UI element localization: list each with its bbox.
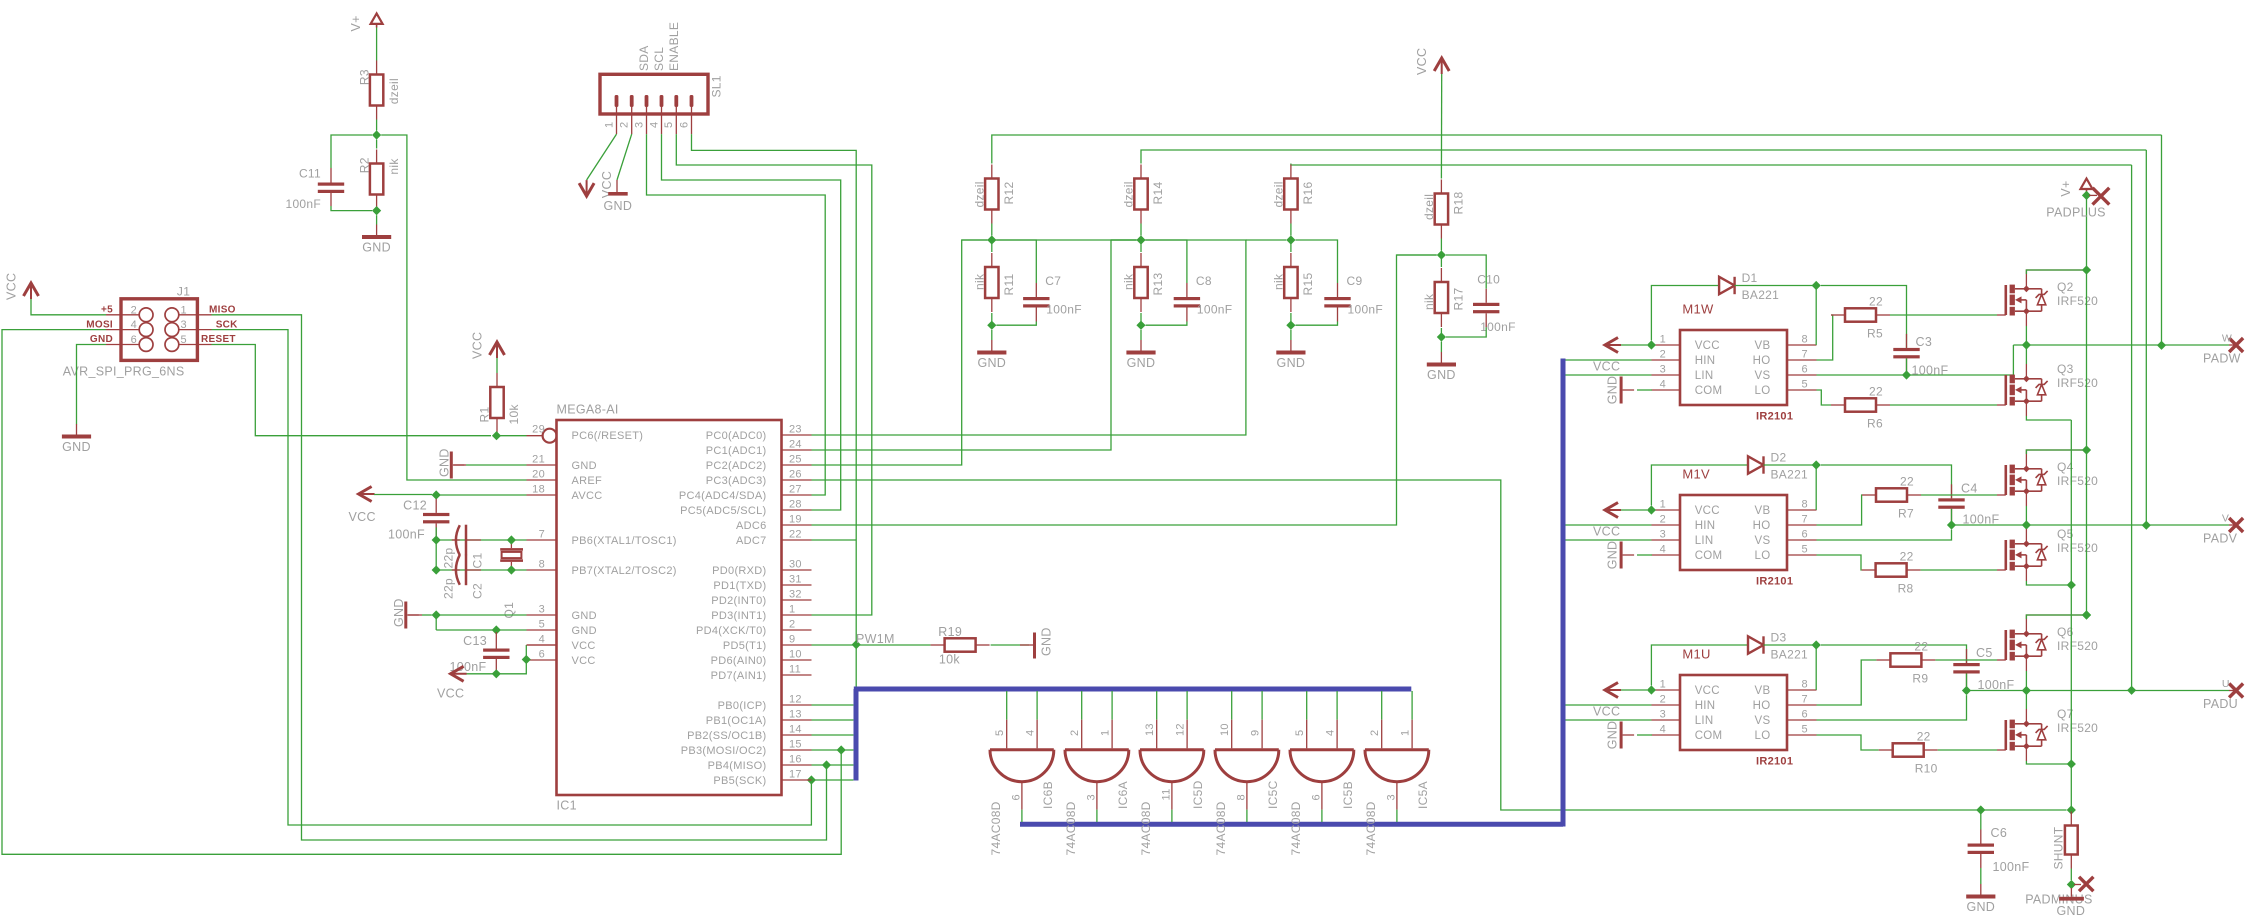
junction R11 bottom: [987, 321, 996, 330]
AND gate IC5D body: [1140, 750, 1204, 782]
svg-text:HIN: HIN: [1695, 700, 1716, 712]
junction sense W: [2157, 341, 2166, 350]
svg-text:4: 4: [539, 634, 545, 646]
svg-text:22: 22: [1914, 640, 1928, 654]
transistor Q6 IRF520: [1997, 630, 2048, 661]
junction divider R18 mid: [1437, 250, 1446, 259]
pad PADPLUS: [2093, 188, 2110, 205]
pin Q3 drain: [2025, 364, 2027, 379]
svg-text:3: 3: [181, 319, 187, 331]
junction phase U: [2022, 686, 2031, 695]
J1 pin 2 pad: [139, 308, 153, 322]
svg-text:GND: GND: [90, 334, 113, 345]
svg-text:1: 1: [1660, 499, 1666, 511]
svg-text:100nF: 100nF: [1348, 303, 1384, 317]
wire LO to R8: [1817, 555, 1862, 570]
svg-text:5: 5: [1802, 544, 1808, 556]
pad stub PADW: [2229, 344, 2236, 346]
junction R13 bottom: [1136, 321, 1145, 330]
wire C9 bottom: [1296, 322, 1338, 326]
svg-text:22: 22: [789, 529, 802, 541]
svg-text:dzeil: dzeil: [387, 78, 401, 104]
wire Q5 drain to phase: [2025, 525, 2027, 529]
junction C6 top: [1976, 805, 1985, 814]
svg-text:PB4(MISO): PB4(MISO): [708, 760, 767, 772]
ground at SL1 pin2: [604, 180, 633, 213]
ground at R19: [1020, 627, 1054, 658]
svg-text:2: 2: [1069, 730, 1081, 736]
wire R12 to node: [991, 224, 993, 236]
wire R16 top to sense line: [1291, 164, 2132, 166]
wire gate IC5A input 2: [1381, 691, 1383, 720]
pin Q7 drain: [2025, 709, 2027, 724]
wire node left branch: [1246, 239, 1286, 241]
svg-text:IC1: IC1: [557, 799, 577, 813]
wire VCC arrow to M1W pin1: [1621, 344, 1647, 346]
svg-text:C2: C2: [470, 583, 484, 599]
svg-text:22p: 22p: [442, 578, 456, 599]
svg-text:C1: C1: [470, 553, 484, 569]
svg-text:V+: V+: [349, 15, 363, 31]
resistor R13: [1122, 253, 1166, 312]
pin 3 GND stub: [527, 614, 557, 616]
svg-text:M1V: M1V: [1682, 467, 1710, 482]
pin 6 VS of M1V: [1787, 539, 1817, 541]
wire R13 to gnd node: [1140, 313, 1142, 325]
wire LO to R10: [1817, 735, 1879, 750]
junction crystal top: [507, 535, 516, 544]
svg-text:1: 1: [1660, 679, 1666, 691]
ground at M1V COM: [1605, 541, 1634, 570]
svg-text:VB: VB: [1755, 505, 1771, 517]
svg-text:11: 11: [1161, 788, 1173, 800]
svg-text:AREF: AREF: [572, 475, 603, 487]
svg-text:9: 9: [1249, 730, 1261, 736]
junction MOSI at PB3: [837, 745, 846, 754]
svg-text:C10: C10: [1477, 273, 1500, 287]
SL1 pin 6 lead: [691, 107, 693, 134]
AND gate IC5B body: [1290, 750, 1354, 782]
transistor Q2 IRF520: [1997, 285, 2048, 316]
pin 16 PB4(MISO) stub: [782, 764, 812, 766]
SL1 pin 2 lead: [631, 107, 633, 134]
transistor Q3 IRF520: [1997, 375, 2048, 406]
pin 5 LO of M1W: [1787, 389, 1817, 391]
svg-text:nik: nik: [1122, 273, 1136, 290]
svg-text:7: 7: [1802, 514, 1808, 526]
svg-text:IRF520: IRF520: [2057, 541, 2098, 555]
wire node to R11: [991, 240, 993, 252]
pin 6 VCC stub: [527, 659, 557, 661]
svg-text:R14: R14: [1151, 182, 1165, 205]
svg-text:Q1: Q1: [502, 602, 516, 619]
svg-text:dzeil: dzeil: [1272, 181, 1286, 207]
svg-text:10: 10: [789, 649, 802, 661]
pin 19 ADC6 stub: [782, 524, 812, 526]
wire VCC arrow to M1U pin1: [1621, 689, 1647, 691]
wire R10 to Q7 gate: [1938, 749, 1997, 751]
svg-text:RESET: RESET: [201, 334, 236, 345]
wire Q4 drain to V+ rail: [2026, 450, 2086, 469]
ground below R2: [362, 225, 391, 255]
wire gate IC5A output: [1396, 810, 1398, 822]
AND gate IC6A body: [1065, 750, 1129, 782]
transistor Q7 IRF520: [1997, 720, 2048, 751]
svg-text:1: 1: [603, 122, 615, 128]
wire RESET node to PC6: [497, 435, 527, 437]
wire C7 bottom: [996, 322, 1036, 326]
wire gate IC6A output: [1096, 810, 1098, 822]
svg-text:22: 22: [1917, 730, 1931, 744]
svg-text:R12: R12: [1002, 182, 1016, 205]
svg-text:V+: V+: [2059, 180, 2073, 196]
wire C8 bottom: [1146, 322, 1187, 326]
svg-text:GND: GND: [362, 241, 391, 255]
wire V+ rail: [2086, 195, 2088, 615]
svg-text:GND: GND: [438, 448, 452, 477]
ground at M1W COM: [1605, 376, 1634, 405]
SL1 pin 5 pad: [674, 95, 678, 107]
svg-text:R7: R7: [1898, 507, 1914, 521]
wire bus to HIN M1W: [1566, 359, 1652, 361]
wire VB node down: [1815, 465, 1817, 510]
ground below R17: [1427, 352, 1456, 382]
svg-text:PW1M: PW1M: [856, 632, 895, 646]
wire gate IC5B input 5: [1306, 691, 1308, 720]
svg-text:3: 3: [1660, 529, 1666, 541]
svg-text:12: 12: [789, 694, 802, 706]
IC M1U IR2101 box: [1680, 675, 1787, 750]
J1 pin 1 stub: [179, 314, 212, 316]
wire phase W line: [2013, 344, 2229, 346]
svg-text:18: 18: [532, 484, 545, 496]
pin 4 COM of M1V: [1652, 554, 1681, 556]
junction COM rail Q5: [2067, 580, 2076, 589]
wire net RESET: [212, 345, 492, 436]
svg-text:VS: VS: [1755, 370, 1771, 382]
svg-text:IR2101: IR2101: [1756, 576, 1793, 588]
wire VCC arrow to M1V pin1: [1621, 509, 1647, 511]
pin 8 VB of M1W: [1787, 344, 1817, 346]
power VCC at M1W: [1593, 338, 1621, 374]
svg-text:LIN: LIN: [1695, 715, 1714, 727]
svg-text:1: 1: [1399, 730, 1411, 736]
wire gnd to pin21: [466, 464, 527, 466]
svg-text:11: 11: [789, 664, 801, 676]
pin 2 HIN of M1U: [1652, 704, 1681, 706]
J1 pin 6 stub: [106, 344, 139, 346]
svg-text:4: 4: [1024, 730, 1036, 736]
power VCC at M1U: [1593, 683, 1621, 719]
svg-text:24: 24: [789, 439, 802, 451]
svg-text:Q3: Q3: [2057, 362, 2074, 376]
power VCC at M1V: [1593, 503, 1621, 539]
svg-text:VCC: VCC: [1695, 685, 1720, 697]
svg-text:GND: GND: [1605, 541, 1619, 570]
svg-text:PB2(SS/OC1B): PB2(SS/OC1B): [687, 730, 766, 742]
svg-text:100nF: 100nF: [1197, 303, 1233, 317]
resistor R14: [1122, 165, 1166, 224]
svg-text:R11: R11: [1002, 273, 1016, 295]
svg-text:10: 10: [1219, 723, 1231, 736]
wire bus to HIN M1U: [1566, 704, 1652, 706]
junction V+ rail Q4: [2082, 445, 2091, 454]
wire V+ to R3: [376, 28, 378, 61]
svg-text:5: 5: [539, 619, 545, 631]
svg-text:22: 22: [1869, 385, 1883, 399]
svg-text:8: 8: [539, 559, 545, 571]
svg-text:IR2101: IR2101: [1756, 756, 1793, 768]
junction SCK at PB5: [807, 775, 816, 784]
svg-text:BA221: BA221: [1771, 648, 1809, 662]
wire sense W vertical: [2161, 135, 2163, 345]
svg-text:3: 3: [1086, 794, 1098, 800]
svg-text:3: 3: [539, 604, 545, 616]
power VCC at C13: [437, 666, 467, 700]
ground at pin3: [392, 598, 419, 628]
junction VCC M1V: [1647, 505, 1656, 514]
bus horizontal top: [854, 687, 1412, 692]
svg-text:C5: C5: [1976, 646, 1993, 660]
wire XTAL node link: [435, 540, 437, 570]
svg-text:R15: R15: [1301, 273, 1315, 296]
ground below PADMINUS: [2057, 897, 2086, 918]
junction VB node M1V: [1812, 460, 1821, 469]
wire C10 bottom: [1446, 327, 1486, 337]
svg-text:dzeil: dzeil: [1422, 194, 1436, 220]
svg-text:7: 7: [539, 529, 545, 541]
svg-text:100nF: 100nF: [1993, 860, 2030, 874]
junction C4 phase: [1947, 520, 1956, 529]
svg-text:MISO: MISO: [209, 305, 236, 316]
svg-text:C8: C8: [1196, 274, 1212, 288]
svg-text:PC1(ADC1): PC1(ADC1): [706, 445, 767, 457]
ground below J1: [62, 424, 91, 454]
wire node to R13: [1140, 240, 1142, 252]
svg-text:PD7(AIN1): PD7(AIN1): [711, 670, 767, 682]
pin Q7 source: [2025, 746, 2027, 761]
resistor R19: [931, 638, 990, 651]
pin 30 PD0(RXD) stub: [782, 569, 812, 571]
svg-text:28: 28: [789, 499, 802, 511]
resistor R5 22: [1831, 295, 1890, 341]
resistor R6 22: [1831, 385, 1890, 431]
wire net SCK: [212, 330, 812, 825]
wire R9 to Q6 gate: [1935, 659, 1997, 661]
svg-text:VB: VB: [1755, 340, 1771, 352]
wire node to R17: [1440, 255, 1442, 267]
svg-text:3: 3: [633, 122, 645, 128]
pin stub pin4: [527, 644, 557, 646]
pin 1 of IC6A: [1111, 720, 1113, 749]
svg-text:6: 6: [1311, 794, 1323, 800]
power VCC at SL1: [579, 171, 614, 198]
wire net SCL: [662, 134, 841, 510]
pin 6 VS of M1U: [1787, 719, 1817, 721]
svg-text:4: 4: [1324, 730, 1336, 736]
pin 1 of IC5A: [1411, 720, 1413, 749]
junction PW1M: [852, 640, 861, 649]
J1 pin 1 pad: [165, 308, 179, 322]
wire R2 to GND: [376, 215, 378, 224]
pin 5 GND stub: [527, 629, 557, 631]
pin 14 PB2(SS/OC1B) stub: [782, 734, 812, 736]
wire COM rail: [2070, 420, 2072, 810]
wire PC1 to divider 2: [812, 240, 1137, 450]
wire VB node to C3: [1821, 286, 1907, 348]
svg-text:5: 5: [1802, 379, 1808, 391]
svg-text:5: 5: [1294, 730, 1306, 736]
transistor Q5 IRF520: [1997, 540, 2048, 571]
svg-text:16: 16: [789, 754, 802, 766]
pin Q3 source: [2025, 401, 2027, 416]
junction node NIK: [372, 206, 381, 215]
capacitor C12: [423, 499, 449, 538]
resistor R8 22: [1862, 550, 1921, 596]
capacitor C6: [1968, 830, 1994, 869]
wire D2 cathode to VB node: [1764, 464, 1817, 466]
wire VS jog: [1817, 695, 1967, 720]
svg-text:GND: GND: [1277, 356, 1306, 370]
svg-text:R8: R8: [1898, 582, 1914, 596]
svg-text:VCC: VCC: [1695, 505, 1720, 517]
resistor R15: [1272, 253, 1316, 312]
SL1 pin 4 pad: [660, 95, 664, 107]
svg-text:C9: C9: [1347, 274, 1363, 288]
pin 11 of IC5D: [1171, 782, 1173, 810]
svg-text:GND: GND: [1605, 376, 1619, 405]
junction crystal bottom: [507, 565, 516, 574]
svg-text:R2: R2: [357, 157, 371, 173]
wire node left branch: [962, 239, 988, 241]
wire node to R15: [1290, 240, 1292, 252]
resistor R18: [1422, 180, 1466, 239]
svg-text:R16: R16: [1301, 182, 1315, 205]
svg-text:ENABLE: ENABLE: [667, 22, 681, 71]
svg-text:LIN: LIN: [1695, 370, 1714, 382]
svg-text:100nF: 100nF: [388, 528, 425, 542]
pin 31 PD1(TXD) stub: [782, 584, 812, 586]
wire pin6 node to VCC: [466, 660, 526, 674]
pin 5 LO of M1U: [1787, 734, 1817, 736]
junction C13 bottom: [492, 669, 501, 678]
junction sense V: [2142, 521, 2151, 530]
wire gate IC6B input 4: [1036, 691, 1038, 720]
svg-text:100nF: 100nF: [1912, 364, 1949, 378]
wire R7 to Q4 gate: [1921, 494, 1997, 496]
pin 6 of IC5B: [1321, 782, 1323, 810]
wire SL1 pin2 to GND: [617, 134, 632, 180]
svg-text:6: 6: [131, 334, 137, 346]
junction V+ rail bottom: [2082, 610, 2091, 619]
wire VCC node to diode D1: [1651, 286, 1719, 341]
junction phase V: [2022, 520, 2031, 529]
svg-text:13: 13: [789, 709, 802, 721]
wire gate IC6B input 5: [1006, 691, 1008, 720]
wire gate IC6A input 2: [1081, 691, 1083, 720]
svg-text:5: 5: [181, 334, 187, 346]
svg-text:74AC08D: 74AC08D: [1064, 801, 1078, 855]
pad PADMINUS: [2079, 877, 2093, 891]
junction phase W: [2022, 340, 2031, 349]
svg-text:5: 5: [663, 122, 675, 128]
wire gnd bar to pin3 node: [422, 614, 432, 616]
pin 28 PC5(ADC5/SCL) stub: [782, 509, 812, 511]
svg-text:74AC08D: 74AC08D: [1214, 801, 1228, 855]
pin 32 PD2(INT0) stub: [782, 599, 812, 601]
svg-text:C6: C6: [1991, 826, 2008, 840]
junction node DZ: [372, 130, 381, 139]
SL1 pin 1 lead: [616, 107, 618, 134]
SL1 pin 3 pad: [645, 95, 649, 107]
wire gate IC5A input 1: [1411, 691, 1413, 720]
svg-text:GND: GND: [62, 440, 91, 454]
svg-text:31: 31: [789, 574, 802, 586]
pad stub PADU: [2229, 690, 2236, 692]
junction VCC M1W: [1647, 340, 1656, 349]
resistor R17: [1422, 268, 1466, 327]
wire gate IC5D input 13: [1156, 691, 1158, 720]
svg-text:PB3(MOSI/OC2): PB3(MOSI/OC2): [681, 745, 767, 757]
pin 23 PC0(ADC0) stub: [782, 434, 812, 436]
wire VCC node to diode D2: [1651, 465, 1748, 505]
pin 2 HIN of M1W: [1652, 359, 1681, 361]
svg-text:IRF520: IRF520: [2057, 639, 2098, 653]
wire node left branch 4: [1397, 254, 1437, 256]
wire PC2 to divider 1: [812, 240, 988, 465]
svg-text:HO: HO: [1753, 520, 1771, 532]
ground below R11: [977, 340, 1006, 370]
junction VCC M1U: [1647, 685, 1656, 694]
wire D1 cathode to VB node: [1735, 285, 1817, 287]
svg-text:VCC: VCC: [5, 273, 19, 300]
svg-text:8: 8: [1236, 794, 1248, 800]
bus vertical left: [854, 689, 859, 781]
wire Q7 source to COM rail: [2026, 761, 2071, 764]
transistor Q4 IRF520: [1997, 465, 2048, 496]
svg-text:2: 2: [1660, 694, 1666, 706]
wire net SDA: [647, 134, 826, 495]
svg-text:D3: D3: [1771, 631, 1787, 645]
svg-text:10k: 10k: [507, 404, 521, 425]
AND gate IC6B body: [990, 750, 1054, 782]
wire C3 to VS: [1906, 358, 1908, 375]
wire VB node down: [1815, 645, 1817, 690]
svg-text:VCC: VCC: [1593, 705, 1620, 719]
capacitor C2: [442, 555, 485, 599]
wire Q3 source to COM rail: [2026, 416, 2071, 420]
pin 5 of IC5B: [1306, 720, 1308, 749]
wire C6 drop: [1980, 810, 1982, 830]
junction MISO at PB4: [822, 760, 831, 769]
svg-text:PC2(ADC2): PC2(ADC2): [706, 460, 767, 472]
svg-text:SDA: SDA: [637, 45, 651, 71]
wire R16 to node: [1290, 224, 1292, 236]
svg-text:32: 32: [789, 589, 802, 601]
wire PADMINUS to ground: [2070, 888, 2072, 897]
pad stub PADPLUS: [2089, 194, 2097, 196]
wire VCC to R1: [496, 358, 498, 373]
svg-text:100nF: 100nF: [285, 197, 321, 211]
wire R14 top to sense line: [1141, 150, 2146, 164]
svg-text:2: 2: [1660, 514, 1666, 526]
pin 10 PD6(AIN0) stub: [782, 659, 812, 661]
svg-text:2: 2: [1660, 349, 1666, 361]
svg-text:R13: R13: [1151, 273, 1165, 296]
pin 5 LO of M1V: [1787, 554, 1817, 556]
diode D3 BA221: [1748, 631, 1808, 662]
wire gate IC5D input 12: [1186, 691, 1188, 720]
